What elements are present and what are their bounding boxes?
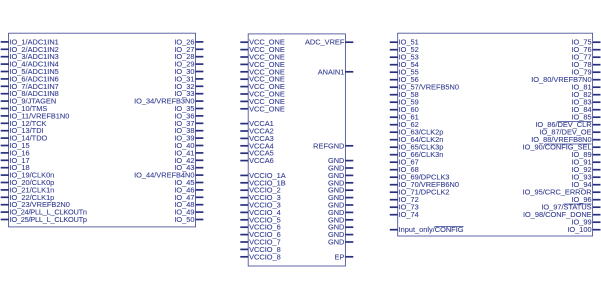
pin IO_1/ADC1IN1 (left) <box>1 37 59 46</box>
pin VCC_ONE (left) <box>240 90 285 99</box>
pin IO_21/CLK1n (left) <box>1 185 55 194</box>
pin IO_94 (right) <box>571 180 600 189</box>
pin IO_3/ADC1IN3 (left) <box>1 52 59 61</box>
pin IO_26 (right) <box>174 37 203 46</box>
pin VCCA3 (left) <box>240 134 273 143</box>
pin VCC_ONE (left) <box>240 38 285 47</box>
pin IO_46 (right) <box>174 185 203 194</box>
pin GND (right) <box>328 156 353 165</box>
pin IO_69/DPCLK3 (left) <box>390 173 450 182</box>
pin IO_5/ADC1IN5 (left) <box>1 67 59 76</box>
pin VCCIO_3 (left) <box>240 193 280 202</box>
pin IO_23/VREFB2N0 (left) <box>1 200 70 209</box>
pin GND (right) <box>328 186 353 195</box>
pin VCC_ONE (left) <box>240 97 285 106</box>
pin IO_54 (left) <box>390 60 419 69</box>
pin IO_4/ADC1IN4 (left) <box>1 60 59 69</box>
pin IO_33 (right) <box>174 89 203 98</box>
pin VCC_ONE (left) <box>240 75 285 84</box>
svg-text:ADC_VREF: ADC_VREF <box>305 38 345 47</box>
pin VCCA4 (left) <box>240 141 273 150</box>
pin IO_38 (right) <box>174 126 203 135</box>
pin IO_86/DEV_CLR (right) <box>535 120 600 129</box>
pin IO_47 (right) <box>174 193 203 202</box>
pin IO_32 (right) <box>174 82 203 91</box>
pin IO_84 (right) <box>571 105 600 114</box>
pin Input_only/CONFIG (left) <box>390 225 464 234</box>
pin IO_100 (right) <box>567 225 600 234</box>
pin IO_25/PLL_L_CLKOUTp (left) <box>1 215 87 224</box>
pin VCCIO_6 (left) <box>240 230 280 239</box>
svg-text:IO_74: IO_74 <box>399 210 419 219</box>
pin IO_98/CONF_DONE (right) <box>523 210 600 219</box>
pin REFGND (right) <box>313 141 353 150</box>
pin IO_41 (right) <box>174 148 203 157</box>
pin GND (right) <box>328 201 353 210</box>
pin IO_96 (right) <box>571 195 600 204</box>
pin IO_79 (right) <box>571 68 600 77</box>
pin IO_44/VREFB4N0 (right) <box>134 171 203 180</box>
pin IO_99 (right) <box>571 218 600 227</box>
pin GND (right) <box>328 223 353 232</box>
pin IO_59 (left) <box>390 98 419 107</box>
pin IO_61 (left) <box>390 113 419 122</box>
pin VCCA1 (left) <box>240 119 273 128</box>
pin IO_2/ADC1IN2 (left) <box>1 45 59 54</box>
pin VCC_ONE (left) <box>240 45 285 54</box>
pin IO_36 (right) <box>174 111 203 120</box>
pin IO_53 (left) <box>390 53 419 62</box>
pin EP (right) <box>335 252 354 261</box>
pin IO_85 (right) <box>571 113 600 122</box>
pin VCC_ONE (left) <box>240 60 285 69</box>
pin IO_75 (right) <box>571 38 600 47</box>
pin IO_73 (left) <box>390 203 419 212</box>
pin VCC_ONE (left) <box>240 82 285 91</box>
pin IO_43 (right) <box>174 163 203 172</box>
pin IO_29 (right) <box>174 60 203 69</box>
pin IO_50 (right) <box>174 215 203 224</box>
pin IO_15 (left) <box>1 141 30 150</box>
pin IO_20/CLK0p (left) <box>1 178 55 187</box>
pin IO_27 (right) <box>174 45 203 54</box>
pin IO_68 (left) <box>390 165 419 174</box>
pin IO_67 (left) <box>390 158 419 167</box>
pin IO_7/ADC1IN7 (left) <box>1 82 59 91</box>
pin IO_40 (right) <box>174 141 203 150</box>
pin IO_87/DEV_OE (right) <box>539 128 600 137</box>
svg-text:IO_100: IO_100 <box>567 225 591 234</box>
pin IO_19/CLK0n (left) <box>1 171 55 180</box>
pin VCCA5 (left) <box>240 149 273 158</box>
pin IO_64/CLK2n (left) <box>390 135 444 144</box>
pin GND (right) <box>328 164 353 173</box>
svg-text:VCCIO_8: VCCIO_8 <box>249 252 281 261</box>
svg-text:VCCA6: VCCA6 <box>249 156 274 165</box>
pin GND (right) <box>328 215 353 224</box>
pin IO_34/VREFB3N0 (right) <box>134 97 203 106</box>
pin IO_70/VREFB6N0 (left) <box>390 180 459 189</box>
pin GND (right) <box>328 193 353 202</box>
pin IO_42 (right) <box>174 156 203 165</box>
pin VCCIO_6 (left) <box>240 223 280 232</box>
pin ANAIN1 (right) <box>318 67 354 76</box>
pin IO_58 (left) <box>390 90 419 99</box>
pin IO_17 (left) <box>1 156 30 165</box>
IC bank 1-2 (I/O banks left block) <box>9 33 196 227</box>
pin IO_92 (right) <box>571 165 600 174</box>
pin IO_48 (right) <box>174 200 203 209</box>
pin IO_22/CLK1p (left) <box>1 193 55 202</box>
pin GND (right) <box>328 178 353 187</box>
pin IO_74 (left) <box>390 210 419 219</box>
IC power block (VCC/GND) <box>248 34 345 266</box>
pin ADC_VREF (right) <box>305 38 353 47</box>
pin IO_82 (right) <box>571 90 600 99</box>
pin IO_28 (right) <box>174 52 203 61</box>
pin IO_97/STATUS (right) <box>541 203 600 212</box>
pin VCCIO_8 (left) <box>240 245 280 254</box>
pin GND (right) <box>328 208 353 217</box>
pin IO_13/TDI (left) <box>1 126 44 135</box>
svg-text:IO_50: IO_50 <box>174 215 194 224</box>
pin IO_76 (right) <box>571 45 600 54</box>
pin IO_12/TCK (left) <box>1 119 47 128</box>
pin VCC_ONE (left) <box>240 67 285 76</box>
pin VCCIO_1B (left) <box>240 178 285 187</box>
pin IO_83 (right) <box>571 98 600 107</box>
pin VCCA6 (left) <box>240 156 273 165</box>
pin IO_49 (right) <box>174 208 203 217</box>
pin IO_89 (right) <box>571 150 600 159</box>
pin VCCA2 (left) <box>240 127 273 136</box>
pin IO_90/CONFIG_SEL (right) <box>523 143 601 152</box>
pin IO_10/TMS (left) <box>1 104 48 113</box>
svg-text:VCC_ONE: VCC_ONE <box>249 104 285 113</box>
pin IO_11/VREFB1N0 (left) <box>1 111 70 120</box>
pin VCCIO_8 (left) <box>240 252 280 261</box>
pin VCCIO_1A (left) <box>240 171 285 180</box>
svg-text:GND: GND <box>328 238 344 247</box>
pin IO_16 (left) <box>1 148 30 157</box>
pin IO_51 (left) <box>390 38 419 47</box>
pin IO_65/CLK3p (left) <box>390 143 444 152</box>
pin GND (right) <box>328 171 353 180</box>
pin GND (right) <box>328 238 353 247</box>
pin IO_37 (right) <box>174 119 203 128</box>
svg-text:ANAIN1: ANAIN1 <box>318 67 345 76</box>
pin IO_78 (right) <box>571 60 600 69</box>
svg-text:IO_25/PLL_L_CLKOUTp: IO_25/PLL_L_CLKOUTp <box>10 215 88 224</box>
pin IO_30 (right) <box>174 67 203 76</box>
pin IO_62 (left) <box>390 120 419 129</box>
pin IO_35 (right) <box>174 104 203 113</box>
pin VCCIO_2 (left) <box>240 186 280 195</box>
pin IO_95/CRC_ERROR (right) <box>523 188 601 197</box>
pin VCCIO_7 (left) <box>240 238 280 247</box>
IC bank 5-8 (I/O banks right block) <box>398 33 593 236</box>
pin IO_77 (right) <box>571 53 600 62</box>
pin IO_14/TDO (left) <box>1 134 48 143</box>
pin VCCIO_5 (left) <box>240 215 280 224</box>
pin IO_18 (left) <box>1 163 30 172</box>
pin VCC_ONE (left) <box>240 53 285 62</box>
pin IO_6/ADC1IN6 (left) <box>1 74 59 83</box>
pin IO_72 (left) <box>390 195 419 204</box>
pin IO_91 (right) <box>571 158 600 167</box>
pin IO_56 (left) <box>390 75 419 84</box>
pin IO_81 (right) <box>571 83 600 92</box>
pin IO_31 (right) <box>174 74 203 83</box>
pin GND (right) <box>328 230 353 239</box>
pin IO_24/PLL_L_CLKOUTn (left) <box>1 208 87 217</box>
pin IO_52 (left) <box>390 45 419 54</box>
pin IO_45 (right) <box>174 178 203 187</box>
pin IO_63/CLK2p (left) <box>390 128 444 137</box>
pin IO_93 (right) <box>571 173 600 182</box>
svg-text:EP: EP <box>335 252 345 261</box>
pin IO_9/JTAGEN (left) <box>1 97 56 106</box>
pin IO_88/VREFB8N0 (right) <box>531 135 600 144</box>
pin IO_39 (right) <box>174 134 203 143</box>
pin VCCIO_4 (left) <box>240 208 280 217</box>
pin VCCIO_3 (left) <box>240 201 280 210</box>
pin IO_8/ADC1IN8 (left) <box>1 89 59 98</box>
pin IO_66/CLK3n (left) <box>390 150 444 159</box>
pin IO_71/DPCLK2 (left) <box>390 188 450 197</box>
pin IO_80/VREFB7N0 (right) <box>531 75 600 84</box>
pin IO_57/VREFB5N0 (left) <box>390 83 459 92</box>
svg-text:REFGND: REFGND <box>313 141 344 150</box>
pin IO_60 (left) <box>390 105 419 114</box>
pin IO_55 (left) <box>390 68 419 77</box>
pin VCC_ONE (left) <box>240 104 285 113</box>
